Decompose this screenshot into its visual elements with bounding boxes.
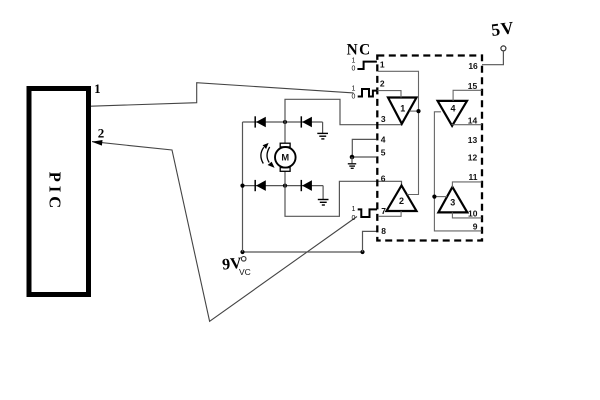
wire PIC pin2 to IC pin7 pulse: [92, 142, 357, 322]
svg-text:8: 8: [381, 226, 386, 236]
svg-text:1: 1: [352, 86, 356, 93]
svg-text:1: 1: [94, 81, 101, 96]
wire pins 4,5 to ground: [352, 139, 376, 157]
node gnd45: [350, 155, 355, 160]
9V supply rail: [243, 251, 363, 253]
svg-text:11: 11: [469, 172, 478, 182]
node bottom rail center: [283, 184, 287, 188]
svg-text:10: 10: [468, 209, 478, 219]
IC L293 dashed box: [377, 56, 482, 241]
wire pin15 to U4 input: [453, 90, 482, 101]
buffer U3: [438, 187, 467, 212]
ground pins 4,5: [348, 157, 356, 168]
step waveform at pin1: [357, 62, 377, 69]
node enable1: [416, 109, 420, 113]
wire PIC pin1 to IC pin2 pulse: [91, 83, 354, 107]
stub enable to U3: [434, 196, 447, 198]
svg-text:PIC: PIC: [46, 172, 65, 212]
svg-text:13: 13: [468, 135, 478, 145]
notch waveform at pin7: [358, 209, 377, 217]
svg-text:1: 1: [400, 104, 405, 114]
wire pin1 enable net: [378, 71, 419, 194]
wire bridge top to IC pin3: [285, 99, 402, 124]
node 9V right: [360, 250, 364, 254]
svg-text:3: 3: [450, 197, 455, 207]
svg-text:1: 1: [352, 206, 356, 213]
ground bottom-right of bridge: [318, 186, 329, 205]
svg-text:6: 6: [381, 173, 386, 183]
svg-text:2: 2: [399, 196, 404, 206]
9V terminal circle: [241, 257, 246, 262]
svg-text:0: 0: [352, 65, 356, 72]
rotation arrow upper: [261, 143, 269, 164]
svg-text:9: 9: [473, 222, 478, 232]
pulse waveform at pin2: [358, 89, 378, 97]
H-bridge top rail: [243, 121, 323, 123]
motor M: [275, 122, 296, 186]
buffer U4: [438, 101, 467, 126]
node top rail center: [283, 120, 287, 124]
svg-text:12: 12: [468, 152, 478, 162]
5V terminal: [482, 46, 506, 65]
diode D4 bottom-right: [301, 180, 312, 191]
svg-text:4: 4: [381, 135, 386, 145]
buffer U1: [388, 98, 417, 124]
wire pin11 to U3 tip: [452, 182, 481, 188]
svg-text:NC: NC: [347, 42, 372, 59]
svg-text:1: 1: [380, 60, 385, 70]
svg-text:4: 4: [450, 104, 455, 114]
node bottom-left rail: [240, 184, 244, 188]
node enable9: [432, 195, 436, 199]
svg-text:1: 1: [352, 57, 356, 64]
arrowhead at PIC pin2: [92, 140, 103, 146]
svg-text:0: 0: [352, 94, 356, 101]
wire U3 output to pin10: [452, 212, 481, 218]
PIC U-controller box: [29, 89, 89, 295]
wire bridge bottom to IC pin6: [285, 181, 402, 216]
svg-text:14: 14: [468, 115, 478, 125]
diode D1 top-left: [255, 116, 266, 127]
svg-text:2: 2: [380, 78, 385, 88]
svg-text:M: M: [281, 153, 289, 163]
H-bridge left rail: [242, 122, 244, 252]
svg-text:5V: 5V: [490, 17, 516, 40]
buffer U2: [387, 186, 417, 212]
wire pin9 enable net: [434, 112, 481, 231]
svg-text:16: 16: [468, 61, 478, 71]
svg-text:VC: VC: [239, 267, 251, 277]
svg-text:3: 3: [381, 114, 386, 124]
stub enable to U1: [410, 110, 419, 112]
wire pin2 to U1 input: [377, 91, 401, 98]
wire U2 output to pin7: [378, 211, 401, 216]
rotation arrow lower: [267, 147, 275, 168]
wire U4 output to pin14: [452, 124, 482, 126]
svg-text:2: 2: [98, 125, 105, 140]
H-bridge bottom rail: [243, 185, 324, 187]
diode D3 bottom-left: [255, 180, 266, 191]
ground top-right of bridge: [317, 122, 328, 139]
node 9V left: [240, 250, 244, 254]
diode D2 top-right: [301, 116, 312, 127]
svg-text:5: 5: [381, 147, 386, 157]
svg-text:0: 0: [352, 215, 356, 222]
svg-text:15: 15: [468, 81, 478, 91]
wire 9V to pin 8: [363, 231, 378, 252]
